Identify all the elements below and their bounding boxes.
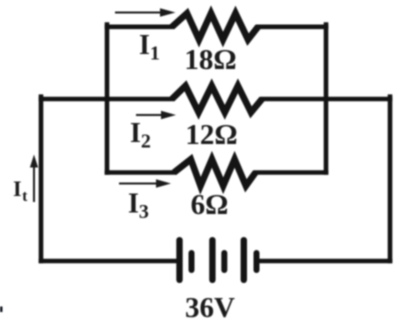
svg-text:I1: I1: [139, 30, 160, 65]
arrow I2 current: [136, 111, 176, 119]
resistor R3 6ohm: [174, 159, 256, 186]
resistor R2 12ohm: [172, 86, 262, 113]
battery B1: [176, 237, 259, 283]
svg-text:12Ω: 12Ω: [185, 119, 237, 151]
arrow It total current (upward): [30, 155, 38, 203]
wire bottom left: [41, 259, 177, 264]
svg-text:I3: I3: [128, 189, 149, 224]
wire vertical left inner (node A column): [105, 25, 110, 173]
wire left rail: [39, 97, 44, 261]
wire branch2 left: [41, 97, 172, 102]
wire branch1 left: [107, 24, 172, 29]
svg-text:I2: I2: [130, 118, 151, 153]
wire vertical right inner (node B column): [324, 25, 329, 173]
arrow I3 current: [119, 179, 171, 187]
wire branch3 right: [256, 170, 327, 175]
svg-text:6Ω: 6Ω: [191, 189, 229, 221]
wire branch3 left: [107, 170, 174, 175]
arrow I1 current: [115, 8, 176, 16]
svg-text:36V: 36V: [185, 292, 235, 323]
svg-text:18Ω: 18Ω: [184, 44, 236, 76]
wire right rail: [388, 97, 393, 261]
wire branch2 right: [262, 97, 390, 102]
wire branch1 right: [258, 24, 326, 29]
svg-text:It: It: [13, 176, 28, 205]
resistor R1 18ohm: [172, 13, 258, 39]
wire bottom right: [259, 259, 390, 264]
